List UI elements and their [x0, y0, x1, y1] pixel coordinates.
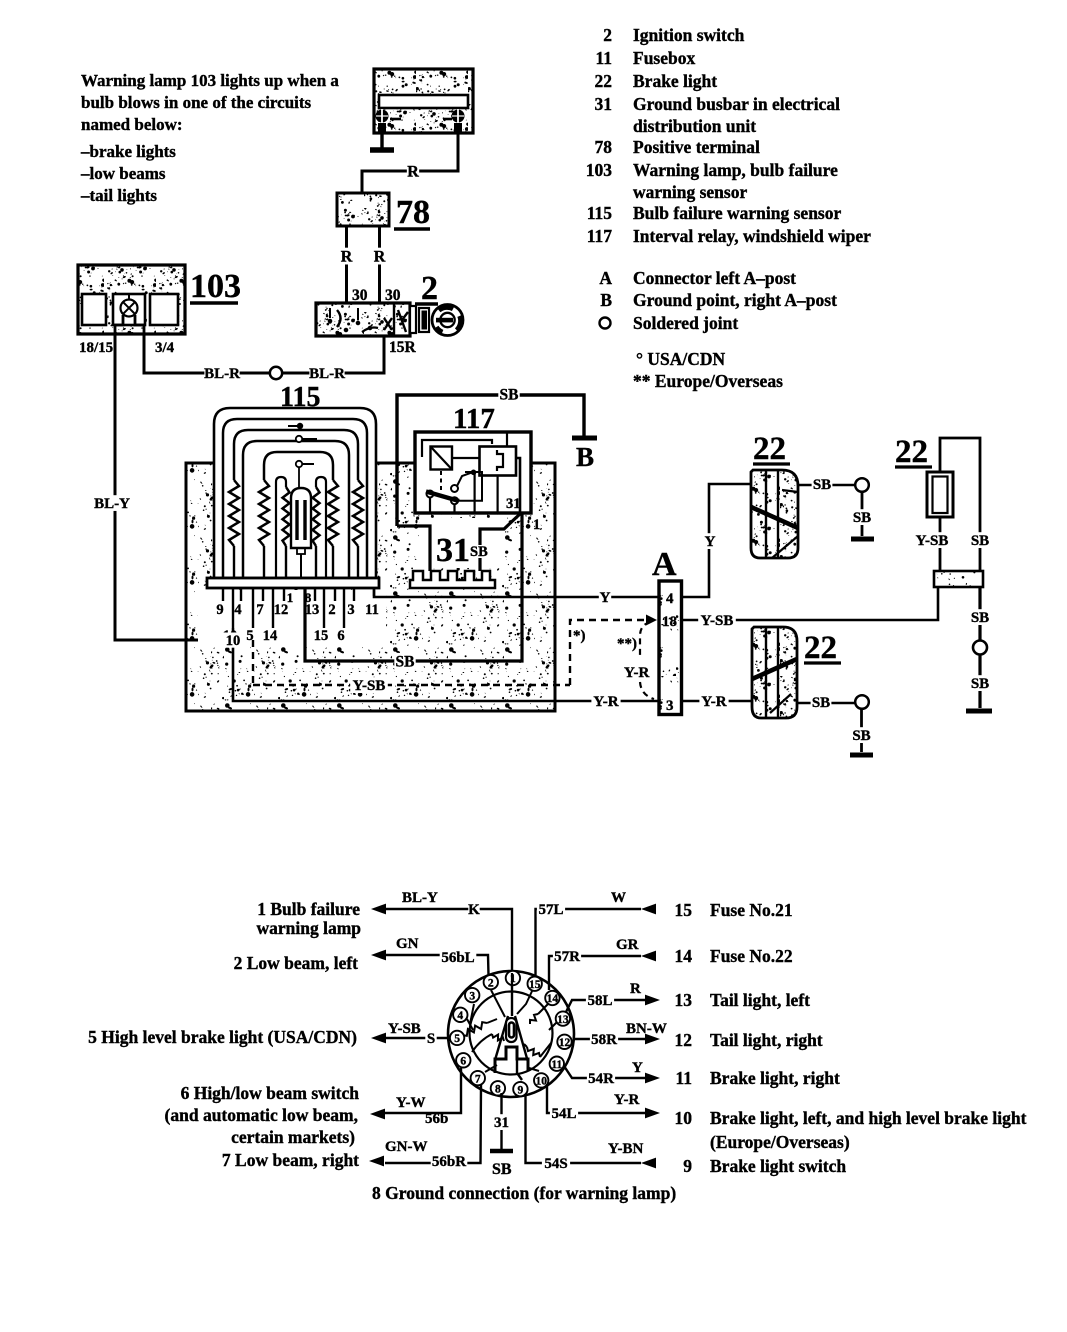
svg-text:6: 6: [337, 628, 344, 644]
svg-text:Warning lamp, bulb failure: Warning lamp, bulb failure: [633, 160, 838, 180]
svg-text:SB: SB: [812, 695, 830, 711]
connector inner circle: [470, 992, 553, 1075]
svg-text:Ground point, right A–post: Ground point, right A–post: [633, 290, 837, 310]
ground point B: [572, 436, 597, 441]
pin 11 stub: [373, 588, 375, 596]
wire R fusebox to 78: [362, 124, 458, 193]
svg-text:3: 3: [469, 990, 475, 1002]
svg-text:SB: SB: [500, 386, 519, 403]
wire from SB down to busbar: [397, 526, 430, 571]
svg-text:Fusebox: Fusebox: [633, 48, 695, 68]
svg-text:(and automatic low beam,: (and automatic low beam,: [165, 1105, 358, 1125]
svg-text:Fuse No.22: Fuse No.22: [710, 946, 793, 966]
svg-text:Positive terminal: Positive terminal: [633, 137, 760, 157]
svg-text:Tail light, right: Tail light, right: [710, 1030, 823, 1050]
svg-text:Brake light, right: Brake light, right: [710, 1068, 840, 1088]
legend soldered joint symbol: [600, 318, 611, 329]
svg-text:9: 9: [683, 1156, 692, 1176]
wire Y sensor to connector A pin 4: [374, 588, 659, 597]
connector internal bulb: [506, 1018, 517, 1042]
svg-text:*): *): [573, 628, 586, 644]
svg-text:11: 11: [365, 602, 379, 618]
wire SB high level brake light top loop: [940, 438, 980, 571]
svg-text:115: 115: [587, 203, 613, 223]
svg-text:103: 103: [190, 268, 241, 305]
svg-text:Brake light switch: Brake light switch: [710, 1156, 846, 1176]
svg-text:Tail light, left: Tail light, left: [710, 990, 810, 1010]
svg-text:certain markets): certain markets): [231, 1127, 355, 1147]
svg-text:Y-SB: Y-SB: [388, 1021, 421, 1037]
svg-text:warning sensor: warning sensor: [633, 182, 747, 202]
connector outer circle: [448, 971, 574, 1097]
wire SB lower brake light to ground: [797, 702, 856, 705]
svg-text:14: 14: [263, 628, 278, 644]
svg-text:Brake light: Brake light: [633, 71, 717, 91]
svg-text:103: 103: [586, 160, 613, 180]
wire Y connector A pin4 to brake light: [682, 484, 752, 597]
connector internal gate/base: [495, 1047, 528, 1073]
svg-text:warning lamp: warning lamp: [256, 918, 361, 938]
wire 58L / R to pin 13: [566, 1000, 646, 1012]
115 inner loop 3 with resistors: [234, 430, 358, 480]
ignition switch internal marks: [328, 308, 408, 332]
svg-text:78: 78: [396, 194, 430, 231]
svg-text:° USA/CDN: ° USA/CDN: [636, 349, 726, 369]
svg-text:named below:: named below:: [81, 115, 183, 134]
svg-text:6: 6: [460, 1056, 466, 1068]
wire K / BL-Y to pin 1: [385, 909, 512, 971]
svg-text:31: 31: [506, 496, 521, 512]
svg-text:Y-R: Y-R: [614, 1092, 639, 1108]
wires inside 103 below lamp: [115, 315, 123, 334]
svg-text:15: 15: [529, 979, 541, 991]
svg-text:Y-R: Y-R: [593, 694, 618, 710]
svg-text:57R: 57R: [554, 949, 580, 965]
svg-text:22: 22: [753, 431, 786, 467]
117 timer element: [431, 447, 453, 470]
svg-text:31: 31: [494, 1115, 509, 1131]
svg-text:1: 1: [533, 517, 540, 533]
svg-text:–brake lights: –brake lights: [80, 142, 176, 161]
svg-text:BN-W: BN-W: [626, 1021, 667, 1037]
wire 31 / SB pin 8 to ground: [500, 1093, 502, 1149]
connector internal right resistor: [524, 1044, 527, 1047]
svg-text:7: 7: [475, 1073, 481, 1085]
svg-text:13: 13: [557, 1014, 569, 1026]
svg-text:54L: 54L: [551, 1106, 576, 1122]
junction connector bar: [934, 571, 983, 587]
svg-text:12: 12: [559, 1037, 571, 1049]
svg-text:10: 10: [675, 1108, 693, 1128]
fusebox 11: [374, 69, 473, 133]
svg-text:SB: SB: [971, 676, 989, 692]
wire R 78 to ignition switch pin30 (left): [345, 226, 348, 303]
ground busbar 31 comb symbol: [410, 571, 495, 588]
svg-text:31: 31: [595, 94, 613, 114]
ignition key symbol: [432, 305, 463, 336]
svg-text:117: 117: [453, 403, 495, 435]
wire 15R / BL-R from ignition to 103: [144, 334, 384, 373]
svg-text:Y-SB: Y-SB: [701, 613, 734, 629]
svg-text:Y: Y: [705, 534, 716, 550]
117 inner rail: [422, 440, 492, 457]
svg-text:2: 2: [328, 602, 335, 618]
legend component list: [586, 25, 871, 310]
svg-text:Y-SB: Y-SB: [353, 678, 386, 694]
svg-text:SB: SB: [853, 510, 871, 526]
svg-text:R: R: [630, 981, 641, 997]
115 pin stubs row1: [222, 588, 224, 601]
115 pin stubs row2: [232, 588, 234, 628]
svg-text:Fuse No.21: Fuse No.21: [710, 900, 793, 920]
ignition switch plug: [410, 306, 416, 333]
115 right hook with resistor: [316, 477, 326, 578]
svg-text:Y-BN: Y-BN: [608, 1141, 643, 1157]
svg-text:SB: SB: [852, 728, 870, 744]
wire 57L / W to pin 15: [536, 909, 642, 975]
wire 56b to pin 6: [385, 1068, 461, 1113]
wire SB junction to ground: [978, 587, 981, 641]
svg-text:117: 117: [587, 226, 613, 246]
white zone under bus bar: [198, 590, 386, 647]
wire Y-SB junction to connector A pin18: [682, 587, 939, 620]
svg-text:Y: Y: [600, 590, 611, 606]
svg-text:115: 115: [280, 382, 320, 413]
svg-text:6 High/low beam switch: 6 High/low beam switch: [181, 1083, 360, 1103]
svg-text:2: 2: [421, 270, 438, 307]
svg-text:1: 1: [287, 590, 294, 605]
svg-text:A: A: [652, 546, 677, 583]
svg-text:56b: 56b: [425, 1111, 448, 1127]
svg-text:9: 9: [216, 602, 223, 618]
svg-text:SB: SB: [813, 477, 831, 493]
svg-text:56bR: 56bR: [432, 1154, 466, 1170]
svg-text:GR: GR: [616, 937, 639, 953]
115 left hook with resistor: [276, 477, 286, 578]
svg-text:Y-R: Y-R: [701, 694, 726, 710]
wire Y-R sensor pin10 to connector A pin 3: [233, 628, 659, 701]
svg-text:5 High level brake light (USA/: 5 High level brake light (USA/CDN): [88, 1027, 357, 1047]
svg-text:22: 22: [804, 630, 837, 666]
svg-text:Interval relay, windshield wip: Interval relay, windshield wiper: [633, 226, 871, 246]
115 inner loop 5 with resistors: [264, 452, 333, 480]
svg-text:SB: SB: [971, 610, 989, 626]
svg-text:Warning lamp 103 lights up whe: Warning lamp 103 lights up when a: [81, 71, 339, 90]
svg-text:GN: GN: [396, 936, 419, 952]
117 switch contacts: [440, 471, 442, 490]
svg-text:1 Bulb failure: 1 Bulb failure: [257, 899, 360, 919]
svg-text:22: 22: [595, 71, 613, 91]
svg-text:B: B: [600, 290, 612, 310]
svg-text:54S: 54S: [544, 1156, 567, 1172]
svg-text:SB: SB: [492, 1161, 512, 1178]
wire 57R / GR to pin 14: [549, 956, 641, 990]
connector pin circles 1-15: [506, 971, 520, 985]
wire SB 115 pin8 to ground busbar: [305, 513, 522, 661]
ignition switch 2 box: [316, 303, 410, 336]
svg-text:SB: SB: [396, 653, 415, 670]
svg-text:2: 2: [603, 25, 612, 45]
svg-text:W: W: [611, 890, 626, 906]
svg-text:(Europe/Overseas): (Europe/Overseas): [710, 1132, 850, 1152]
svg-text:2: 2: [488, 977, 494, 989]
svg-text:58R: 58R: [591, 1032, 617, 1048]
connector internal left resistor: [455, 1035, 462, 1039]
svg-text:8 Ground connection (for warn: 8 Ground connection (for warning lamp): [372, 1183, 676, 1203]
svg-text:SB: SB: [971, 533, 989, 549]
connector internal second left resistor: [472, 1034, 492, 1052]
svg-text:BL-Y: BL-Y: [402, 890, 438, 906]
svg-text:13: 13: [675, 990, 693, 1010]
svg-text:15: 15: [675, 900, 693, 920]
svg-text:4: 4: [234, 602, 241, 618]
svg-text:distribution unit: distribution unit: [633, 116, 756, 136]
svg-text:Y-R: Y-R: [624, 665, 649, 681]
positive terminal 78: [337, 193, 389, 226]
wire 54S / Y-BN to pin 9: [526, 1094, 642, 1163]
svg-text:2 Low beam, left: 2 Low beam, left: [234, 953, 359, 973]
svg-text:R: R: [341, 248, 353, 265]
svg-text:bulb blows in one of the circu: bulb blows in one of the circuits: [81, 93, 312, 112]
connector internal link lines: [491, 990, 505, 1017]
svg-text:3: 3: [347, 602, 354, 618]
svg-text:** Europe/Overseas: ** Europe/Overseas: [633, 371, 783, 391]
wire 54R / Y to pin 11: [564, 1066, 646, 1078]
wire 56bR to pin 7: [385, 1085, 481, 1163]
svg-text:–tail lights: –tail lights: [80, 186, 157, 205]
117 relay coil: [480, 447, 517, 476]
svg-text:Y: Y: [632, 1060, 643, 1076]
svg-text:9: 9: [518, 1084, 524, 1096]
svg-text:–low beams: –low beams: [80, 164, 166, 183]
wire Y-SB dashed (USA/CDN) pin5 to connector A pin 18: [252, 640, 254, 685]
svg-text:R: R: [407, 163, 419, 180]
soldered joint: [855, 478, 869, 492]
svg-text:SB: SB: [470, 544, 488, 560]
svg-text:11: 11: [595, 48, 612, 68]
svg-text:3: 3: [666, 698, 674, 714]
wire SB brake light to ground: [798, 484, 857, 487]
svg-text:BL-Y: BL-Y: [94, 496, 130, 512]
svg-text:4: 4: [457, 1010, 463, 1022]
115 inner loop 2: [223, 419, 367, 578]
svg-text:S: S: [427, 1031, 435, 1047]
svg-text:Ignition switch: Ignition switch: [633, 25, 745, 45]
svg-text:57L: 57L: [538, 902, 563, 918]
electrical distribution unit box: [186, 463, 555, 711]
svg-text:Brake light, left, and high le: Brake light, left, and high level brake …: [710, 1108, 1027, 1128]
svg-text:BL-R: BL-R: [204, 366, 240, 382]
svg-text:78: 78: [595, 137, 613, 157]
wire from 117 pin31 to busbar (diagonal): [480, 513, 521, 545]
wire 58R / BN-W to pin 12: [573, 1038, 646, 1040]
svg-text:A: A: [599, 268, 612, 288]
connector internal bulb holder legs: [495, 1016, 508, 1060]
fusebox terminal right: [443, 109, 465, 132]
svg-text:22: 22: [895, 434, 928, 470]
svg-text:18/15: 18/15: [79, 340, 113, 356]
svg-text:11: 11: [675, 1068, 692, 1088]
svg-text:7 Low beam, right: 7 Low beam, right: [222, 1150, 359, 1170]
wire R 78 to ignition switch pin30 (right): [378, 226, 381, 303]
115 junction taps: [288, 425, 300, 427]
115 connector bus bar: [207, 578, 379, 588]
svg-text:R: R: [374, 248, 386, 265]
svg-text:10: 10: [226, 633, 241, 649]
svg-text:14: 14: [675, 946, 693, 966]
svg-text:7: 7: [256, 602, 263, 618]
115 test lamp: [291, 488, 311, 548]
svg-text:15: 15: [314, 628, 329, 644]
svg-text:18: 18: [662, 614, 677, 630]
svg-text:K: K: [468, 902, 480, 918]
svg-text:Bulb failure warning sensor: Bulb failure warning sensor: [633, 203, 841, 223]
interval relay 117 box: [415, 432, 531, 513]
svg-text:54R: 54R: [588, 1071, 614, 1087]
svg-text:10: 10: [535, 1076, 547, 1088]
wire BL-Y 103 to sensor 115: [115, 334, 296, 640]
svg-text:14: 14: [547, 993, 559, 1005]
warning lamp 103 box: [78, 265, 185, 334]
white zone for 31 labels: [420, 518, 505, 568]
svg-text:31: 31: [436, 532, 470, 569]
svg-text:8: 8: [495, 1084, 501, 1096]
soldered joint on BL-R: [270, 367, 282, 379]
wire Y-R connector A pin3 to brake light lower: [682, 700, 753, 703]
svg-text:B: B: [576, 442, 594, 472]
svg-text:Soldered joint: Soldered joint: [633, 313, 738, 333]
wire SB 117 to ground point B: [397, 395, 584, 526]
ground at fusebox: [380, 125, 383, 150]
svg-text:**): **): [617, 636, 637, 652]
note text: warning lamp description: [80, 71, 339, 205]
115 inner loop 4: [243, 441, 349, 578]
svg-text:Ground busbar in electrical: Ground busbar in electrical: [633, 94, 840, 114]
svg-text:Y-SB: Y-SB: [916, 533, 949, 549]
svg-text:11: 11: [551, 1059, 562, 1071]
svg-text:15R: 15R: [389, 339, 417, 356]
svg-text:3/4: 3/4: [155, 340, 175, 356]
K wire crossing pin 1: [511, 973, 513, 987]
svg-text:56bL: 56bL: [441, 950, 474, 966]
sensor 115 white interior: [214, 408, 376, 578]
svg-text:Y-W: Y-W: [396, 1095, 425, 1111]
wire 56bL to pin 2: [385, 955, 489, 975]
svg-text:4: 4: [666, 591, 674, 607]
wire 54L / Y-R to pin 10: [547, 1084, 646, 1113]
svg-text:58L: 58L: [587, 993, 612, 1009]
svg-text:Connector left A–post: Connector left A–post: [633, 268, 796, 288]
wire S / Y-SB to pin 5: [385, 1037, 450, 1039]
svg-text:BL-R: BL-R: [309, 366, 345, 382]
wire Y-SB lamp bottom to junction: [939, 517, 942, 571]
svg-text:12: 12: [675, 1030, 693, 1050]
fusebox terminal left: [376, 109, 402, 132]
svg-text:5: 5: [454, 1033, 460, 1045]
lamp symbol in 103: [121, 294, 138, 317]
svg-text:GN-W: GN-W: [385, 1139, 428, 1155]
